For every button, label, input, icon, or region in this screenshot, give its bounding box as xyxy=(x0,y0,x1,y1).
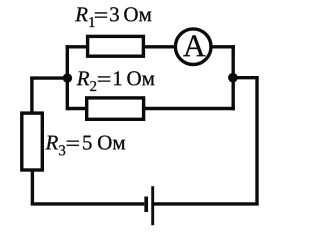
node left junction xyxy=(63,73,72,82)
wire ammeter to right corner xyxy=(211,45,235,48)
resistor R2 xyxy=(87,98,144,119)
wire left dot to left rail xyxy=(30,76,68,79)
resistor R1 xyxy=(88,36,144,56)
ammeter U1 circle xyxy=(175,29,211,65)
label R3 = 5 Ом xyxy=(45,136,125,156)
wire top-left stub xyxy=(66,45,88,48)
label R1 = 3 Ом xyxy=(75,7,151,27)
wire right connector vertical xyxy=(231,45,234,110)
wire bottom left xyxy=(31,202,145,205)
wire right rail xyxy=(255,76,258,205)
wire left connector vertical xyxy=(66,45,69,110)
node right junction xyxy=(228,73,238,83)
battery long plate xyxy=(151,186,154,225)
wire middle-left stub xyxy=(67,107,87,110)
wire right dot to right rail xyxy=(233,76,258,79)
wire R1 to ammeter xyxy=(145,45,176,48)
wire middle-right xyxy=(145,107,235,110)
wire left rail lower xyxy=(31,171,34,206)
label R2 = 1 Ом xyxy=(77,71,155,91)
wire bottom right xyxy=(153,202,259,205)
battery short plate xyxy=(144,197,148,213)
ammeter letter A xyxy=(183,35,205,56)
resistor R3 xyxy=(22,113,43,170)
wire left rail upper xyxy=(30,77,33,114)
